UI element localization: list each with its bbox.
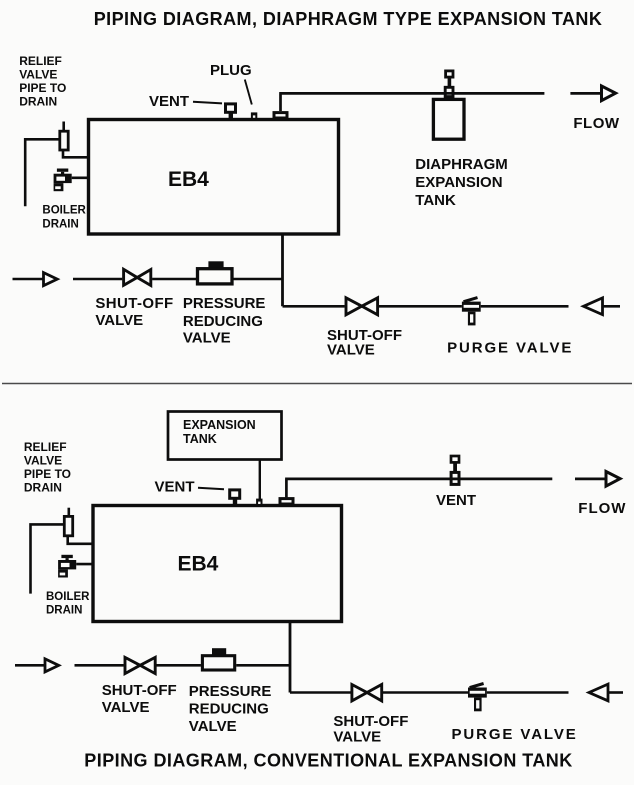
plug fitting (bottom diagram) — [256, 499, 262, 505]
svg-text:FLOW: FLOW — [573, 115, 619, 132]
pipe: expansion tank to boiler — [259, 460, 261, 504]
label PURGE VALVE (top diagram) — [447, 340, 573, 357]
label SHUT-OFF VALVE (bottom right) — [333, 713, 408, 745]
svg-text:TANK: TANK — [415, 192, 456, 209]
svg-text:TANK: TANK — [183, 432, 217, 446]
pipe: return line segments (bottom diagram) — [290, 691, 569, 694]
svg-text:RELIEF: RELIEF — [24, 440, 67, 454]
svg-text:VALVE: VALVE — [24, 454, 62, 468]
pipe: tank bottom connector (bottom diagram) — [289, 622, 292, 693]
flange fitting on tank top (top diagram) — [274, 113, 287, 118]
expansion tank box (bottom diagram) — [168, 412, 282, 460]
label BOILER DRAIN (bottom diagram) — [46, 591, 90, 617]
svg-text:PIPING DIAGRAM, CONVENTIONAL E: PIPING DIAGRAM, CONVENTIONAL EXPANSION T… — [84, 750, 572, 770]
svg-text:DRAIN: DRAIN — [19, 94, 57, 108]
svg-text:PURGE VALVE: PURGE VALVE — [447, 340, 573, 357]
label SHUT-OFF VALVE (top right) — [327, 327, 402, 358]
purge valve (top diagram) — [462, 298, 481, 326]
svg-text:BOILER: BOILER — [46, 591, 90, 603]
pipe: relief valve to tank (bottom diagram) — [68, 536, 95, 544]
label FLOW (top diagram) — [573, 115, 619, 132]
pressure reducing valve (top diagram) — [198, 261, 233, 284]
svg-text:PRESSURE: PRESSURE — [183, 295, 266, 312]
svg-text:EB4: EB4 — [178, 553, 219, 576]
svg-text:BOILER: BOILER — [42, 205, 86, 217]
svg-text:VENT: VENT — [155, 479, 195, 496]
label SHUT-OFF VALVE (top left) — [95, 295, 173, 329]
svg-text:VENT: VENT — [436, 492, 476, 509]
inlet flow arrow (top diagram supply) — [13, 273, 58, 286]
return inlet arrow (bottom diagram) — [589, 684, 623, 701]
svg-text:DIAPHRAGM: DIAPHRAGM — [415, 156, 508, 173]
pipe: flange up and main flow line (bottom diagram) — [285, 479, 552, 498]
shut-off valve 2 (bottom diagram) — [352, 685, 382, 701]
svg-text:REDUCING: REDUCING — [183, 313, 263, 330]
svg-text:EXPANSION: EXPANSION — [415, 174, 502, 191]
pipe: boiler drain to tank — [72, 177, 89, 180]
label BOILER DRAIN (top diagram) — [42, 205, 86, 231]
pipe: relief valve to drain (bottom diagram) — [31, 524, 65, 593]
shut-off valve 2 (top diagram) — [346, 298, 378, 315]
svg-text:FLOW: FLOW — [578, 500, 626, 517]
svg-text:PIPE TO: PIPE TO — [24, 467, 71, 481]
svg-text:VALVE: VALVE — [327, 341, 375, 358]
svg-text:VALVE: VALVE — [95, 312, 143, 329]
label RELIEF VALVE PIPE TO DRAIN — [19, 54, 66, 109]
svg-text:RELIEF: RELIEF — [19, 54, 62, 68]
pipe: relief valve to tank — [63, 150, 89, 157]
pipe: supply line segments (bottom diagram) — [75, 664, 291, 667]
label PLUG with leader — [210, 62, 252, 105]
divider line — [2, 383, 632, 385]
return inlet arrow (top diagram) — [584, 298, 621, 315]
shut-off valve 1 (top diagram) — [124, 269, 151, 285]
label VENT (bottom diagram) — [155, 479, 225, 496]
label PURGE VALVE (bottom diagram) — [452, 726, 578, 743]
svg-text:PIPE TO: PIPE TO — [19, 81, 66, 95]
svg-text:PLUG: PLUG — [210, 62, 252, 79]
boiler tank EB4 (bottom diagram) — [93, 506, 342, 622]
label VENT (top diagram) — [149, 93, 222, 110]
purge valve (bottom diagram) — [468, 684, 487, 712]
svg-text:DRAIN: DRAIN — [42, 219, 78, 231]
title top diagram — [94, 9, 603, 29]
pipe: boiler drain to tank (bottom diagram) — [76, 563, 94, 566]
svg-text:VENT: VENT — [149, 93, 189, 110]
svg-text:PRESSURE: PRESSURE — [189, 683, 272, 700]
svg-text:DRAIN: DRAIN — [24, 481, 62, 495]
diaphragm expansion tank assembly — [433, 71, 464, 139]
boiler drain valve (bottom diagram) — [58, 555, 76, 578]
label PRESSURE REDUCING VALVE (bottom diagram) — [189, 683, 272, 735]
svg-text:DRAIN: DRAIN — [46, 605, 82, 617]
label PRESSURE REDUCING VALVE (top diagram) — [183, 295, 266, 346]
vent fitting (bottom diagram) — [230, 490, 240, 505]
pipe: flange up and main flow line (top diagram) — [279, 93, 544, 111]
vent fitting (top diagram) — [226, 104, 236, 119]
boiler drain valve (top diagram) — [54, 169, 72, 192]
inlet flow arrow (bottom diagram supply) — [15, 659, 59, 672]
pipe: supply line segments (top diagram) — [73, 278, 283, 281]
shut-off valve 1 (bottom diagram) — [125, 657, 155, 673]
label DIAPHRAGM EXPANSION TANK — [415, 156, 508, 209]
svg-text:VALVE: VALVE — [333, 729, 381, 746]
svg-text:EXPANSION: EXPANSION — [183, 418, 256, 432]
svg-text:PIPING DIAGRAM, DIAPHRAGM TYPE: PIPING DIAGRAM, DIAPHRAGM TYPE EXPANSION… — [94, 9, 603, 29]
label FLOW (bottom diagram) — [578, 500, 626, 517]
svg-text:EB4: EB4 — [168, 168, 209, 191]
pipe: relief valve to drain — [25, 139, 60, 206]
svg-text:SHUT-OFF: SHUT-OFF — [95, 295, 173, 312]
flow arrow (top diagram) — [570, 86, 615, 101]
label VENT (flow line) — [436, 492, 476, 509]
label SHUT-OFF VALVE (bottom left) — [102, 682, 177, 716]
svg-text:REDUCING: REDUCING — [189, 701, 269, 718]
flange fitting (bottom diagram) — [280, 499, 293, 504]
svg-text:VALVE: VALVE — [189, 718, 237, 735]
label RELIEF VALVE PIPE TO DRAIN (bottom diagram) — [24, 440, 71, 495]
svg-text:VALVE: VALVE — [102, 699, 150, 716]
svg-text:SHUT-OFF: SHUT-OFF — [102, 682, 177, 699]
svg-text:VALVE: VALVE — [19, 67, 57, 81]
relief valve (top diagram) — [60, 122, 68, 151]
pipe: tank bottom connector (top diagram) — [281, 234, 284, 306]
svg-text:VALVE: VALVE — [183, 330, 231, 347]
pressure reducing valve (bottom diagram) — [202, 648, 234, 670]
flow arrow (bottom diagram) — [575, 472, 620, 487]
svg-text:PURGE VALVE: PURGE VALVE — [452, 726, 578, 743]
title bottom diagram — [84, 750, 572, 770]
plug fitting (top diagram) — [251, 112, 257, 118]
vent fitting on flow line (bottom diagram) — [451, 456, 459, 484]
relief valve (bottom diagram) — [64, 508, 72, 536]
pipe: return line segments (top diagram) — [283, 305, 569, 308]
boiler tank EB4 (top diagram) — [89, 120, 339, 235]
